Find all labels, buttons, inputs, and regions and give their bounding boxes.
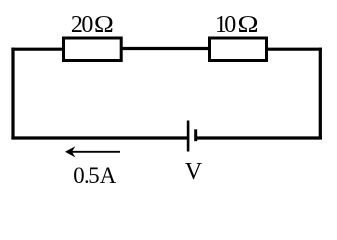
wire top segment 1	[11, 48, 63, 51]
wire top segment 3	[267, 48, 322, 51]
resistor R2	[210, 38, 267, 61]
resistor R1	[64, 38, 122, 61]
svg-text:V: V	[185, 159, 202, 185]
wire bottom segment left	[11, 136, 188, 139]
svg-text:10Ω: 10Ω	[215, 12, 259, 38]
svg-text:0.5A: 0.5A	[73, 163, 117, 188]
svg-text:20Ω: 20Ω	[71, 12, 114, 38]
battery V short plate	[194, 129, 197, 141]
current arrow 0.5A	[65, 146, 120, 157]
wire top segment 2	[121, 47, 209, 50]
wire left vertical	[11, 48, 14, 140]
battery V long plate	[187, 121, 190, 152]
wire right vertical	[319, 48, 322, 140]
wire bottom segment right	[196, 136, 322, 139]
